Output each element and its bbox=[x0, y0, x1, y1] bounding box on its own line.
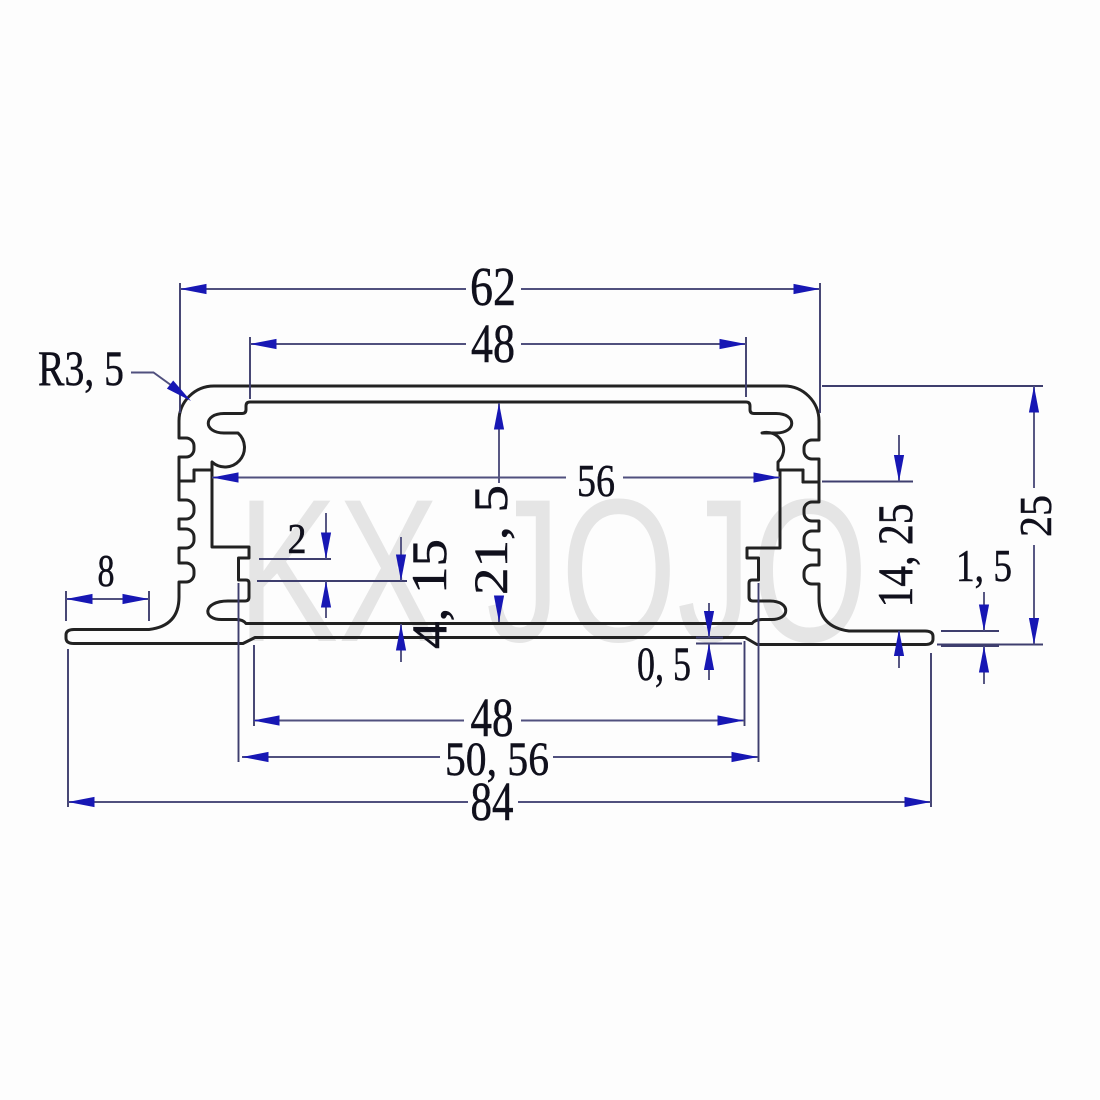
svg-text:8: 8 bbox=[98, 545, 115, 596]
svg-text:1, 5: 1, 5 bbox=[956, 540, 1012, 591]
svg-text:4, 15: 4, 15 bbox=[401, 539, 457, 649]
svg-text:48: 48 bbox=[471, 313, 515, 374]
svg-text:R3, 5: R3, 5 bbox=[38, 340, 124, 396]
svg-text:14, 25: 14, 25 bbox=[867, 504, 923, 608]
svg-text:0, 5: 0, 5 bbox=[637, 638, 691, 691]
svg-text:56: 56 bbox=[577, 455, 615, 506]
svg-text:25: 25 bbox=[1010, 495, 1061, 537]
svg-text:21, 5: 21, 5 bbox=[465, 485, 518, 595]
svg-text:62: 62 bbox=[470, 256, 516, 317]
svg-text:2: 2 bbox=[288, 517, 307, 563]
svg-text:84: 84 bbox=[471, 771, 514, 832]
